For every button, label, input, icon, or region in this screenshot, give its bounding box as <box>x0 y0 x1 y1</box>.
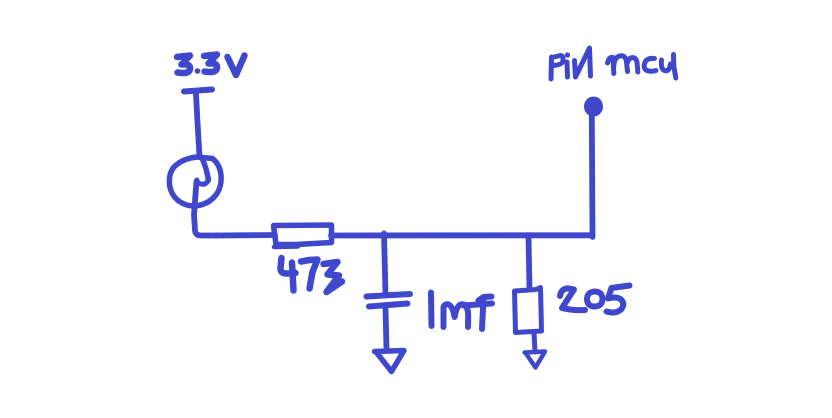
wire capacitor to ground <box>386 308 387 350</box>
net label PiN mcu <box>551 48 676 79</box>
wire junction to resistor 205 branch <box>529 237 530 290</box>
resistor R1 bottom overdraw stroke <box>274 244 298 249</box>
wire from source circle down to main rail <box>194 181 218 236</box>
resistor R2 205 (box) <box>515 288 542 333</box>
wire resistor 205 to ground <box>534 332 535 352</box>
wire junction to capacitor branch <box>384 234 386 295</box>
source inner stroke <box>202 158 209 180</box>
ground symbol (resistor 205) <box>525 352 546 368</box>
net label 3.3V <box>177 55 245 76</box>
wire main rail left segment <box>215 232 275 238</box>
node dot MCU pin <box>584 97 603 117</box>
ground symbol (capacitor) <box>375 351 405 372</box>
capacitor C1 top plate <box>367 294 411 297</box>
source symbol U1 (hand-drawn circle) <box>169 157 221 206</box>
wire from 3.3V rail to source circle <box>196 94 200 156</box>
value label 205 <box>560 286 630 313</box>
power rail bar 3.3V <box>184 90 212 92</box>
value label 1mf <box>431 293 492 330</box>
resistor R1 473 (box) <box>274 225 332 245</box>
value label 473 <box>281 258 343 292</box>
wire main rail middle segment <box>331 232 530 238</box>
wire main rail right segment up to MCU pin <box>527 113 593 237</box>
capacitor C1 bottom plate <box>369 304 408 307</box>
